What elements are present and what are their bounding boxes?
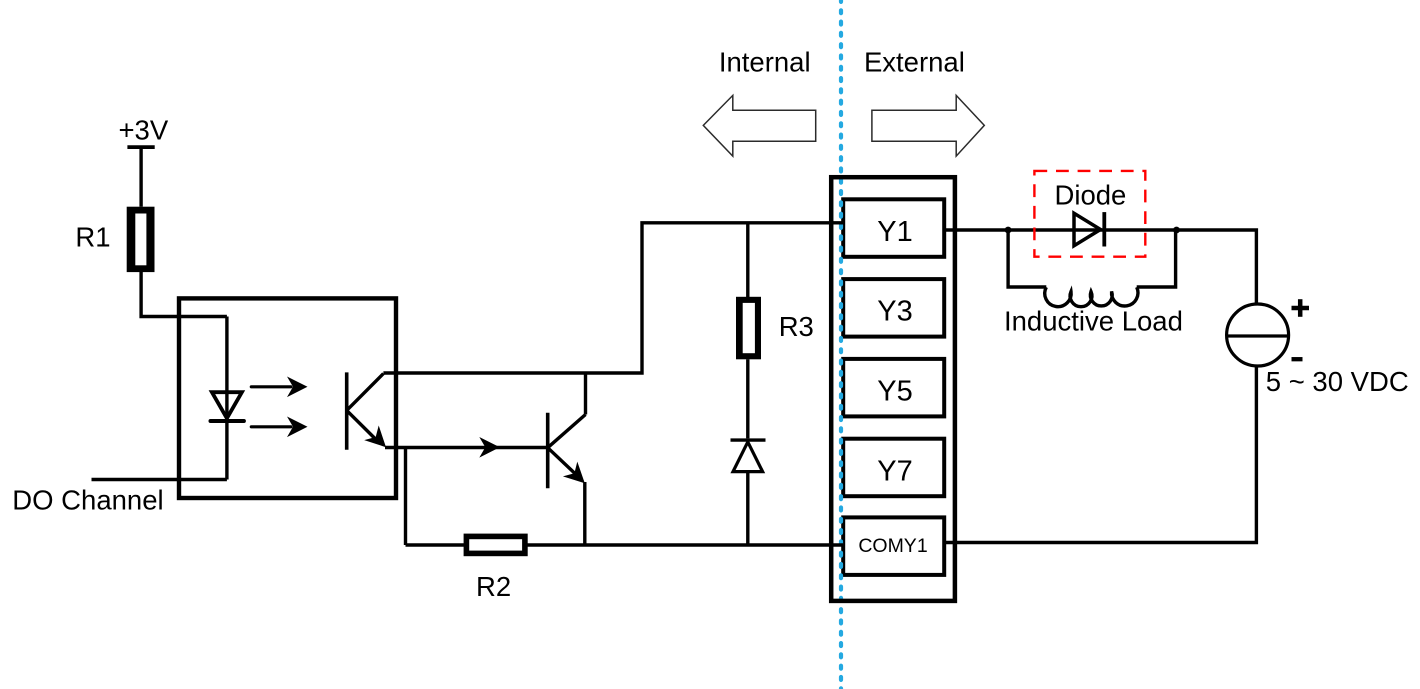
svg-text:Y7: Y7 — [877, 455, 912, 487]
svg-text:DO Channel: DO Channel — [12, 485, 163, 516]
svg-text:Internal: Internal — [719, 46, 811, 77]
svg-text:Y1: Y1 — [877, 216, 912, 248]
svg-text:R2: R2 — [476, 571, 511, 602]
svg-text:Y3: Y3 — [877, 296, 912, 328]
svg-text:Inductive Load: Inductive Load — [1004, 306, 1183, 337]
svg-text:5 ~ 30 VDC: 5 ~ 30 VDC — [1266, 366, 1409, 397]
svg-text:R3: R3 — [779, 311, 814, 342]
svg-text:COMY1: COMY1 — [858, 535, 927, 557]
svg-text:Y5: Y5 — [877, 376, 912, 408]
svg-text:External: External — [864, 47, 965, 78]
svg-text:Diode: Diode — [1055, 180, 1127, 211]
svg-text:R1: R1 — [75, 222, 110, 253]
svg-text:+3V: +3V — [119, 115, 169, 146]
